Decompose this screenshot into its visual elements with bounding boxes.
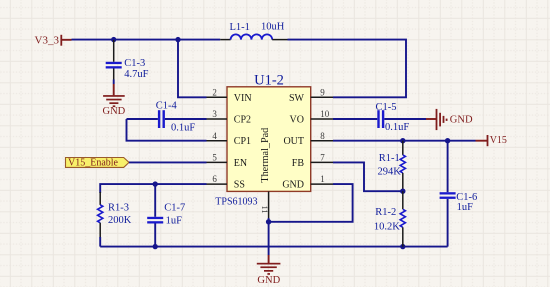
svg-text:4: 4 bbox=[212, 131, 217, 141]
svg-text:C1-5: C1-5 bbox=[376, 102, 397, 113]
svg-text:1: 1 bbox=[320, 174, 325, 184]
svg-text:OUT: OUT bbox=[283, 136, 304, 147]
capacitor C1-3 bbox=[106, 40, 122, 84]
svg-text:SW: SW bbox=[289, 93, 305, 104]
svg-text:GND: GND bbox=[103, 106, 126, 117]
wire VO net bbox=[333, 118, 377, 120]
svg-text:8: 8 bbox=[320, 131, 325, 141]
svg-text:200K: 200K bbox=[108, 215, 132, 226]
svg-text:9: 9 bbox=[320, 87, 325, 97]
wire SS net left bbox=[100, 184, 206, 193]
pin 6 SS bbox=[207, 183, 228, 185]
pin 11 thermal pad lead bbox=[268, 191, 270, 218]
svg-text:7: 7 bbox=[320, 153, 325, 163]
capacitor C1-4 bbox=[127, 110, 207, 128]
ground GND under C1-3 bbox=[103, 84, 126, 117]
power port V3_3 bbox=[35, 34, 72, 46]
pin 3 CP2 bbox=[207, 118, 228, 120]
pin 7 FB bbox=[311, 161, 333, 163]
svg-text:C1-4: C1-4 bbox=[156, 101, 178, 112]
pin 10 VO bbox=[311, 118, 333, 120]
svg-text:GND: GND bbox=[282, 180, 304, 191]
capacitor C1-7 bbox=[147, 184, 163, 247]
power port V15 bbox=[476, 135, 507, 146]
svg-text:CP2: CP2 bbox=[234, 115, 251, 126]
junction SS to C1-7 bbox=[153, 181, 158, 186]
resistor R1-3 bbox=[98, 192, 103, 247]
resistor R1-2 bbox=[400, 191, 405, 246]
svg-text:L1-1: L1-1 bbox=[230, 22, 250, 33]
svg-text:3: 3 bbox=[212, 109, 217, 119]
junction R1-2 bottom bbox=[400, 244, 405, 249]
pin 5 EN bbox=[207, 161, 228, 163]
resistor R1-1 bbox=[400, 141, 405, 192]
svg-text:Thermal_Pad: Thermal_Pad bbox=[260, 128, 271, 183]
svg-text:TPS61093: TPS61093 bbox=[215, 197, 257, 208]
svg-text:GND: GND bbox=[450, 115, 473, 126]
wire thermal pad to ground bbox=[268, 218, 270, 255]
junction thermal pad node bbox=[266, 219, 271, 224]
wire VIN riser bbox=[178, 40, 207, 98]
svg-text:294K: 294K bbox=[377, 166, 401, 177]
svg-text:GND: GND bbox=[257, 275, 280, 286]
svg-text:2: 2 bbox=[212, 87, 217, 97]
svg-text:R1-2: R1-2 bbox=[375, 207, 396, 218]
svg-text:FB: FB bbox=[292, 158, 305, 169]
junction C1-7 bottom bbox=[153, 244, 158, 249]
svg-text:R1-3: R1-3 bbox=[108, 203, 129, 214]
ground GND bottom center bbox=[257, 255, 281, 286]
svg-text:10uH: 10uH bbox=[261, 22, 285, 33]
svg-text:CP1: CP1 bbox=[234, 136, 251, 147]
pin 9 SW bbox=[311, 96, 333, 98]
pin 8 OUT bbox=[311, 140, 333, 142]
svg-text:VIN: VIN bbox=[234, 93, 252, 104]
wire GND pin1 loop bbox=[269, 184, 353, 222]
svg-text:5: 5 bbox=[212, 153, 217, 163]
op-amp/IC U1-2 body bbox=[227, 87, 311, 192]
svg-text:6: 6 bbox=[212, 174, 217, 184]
capacitor C1-6 bbox=[440, 141, 456, 247]
wire CP1 loop bbox=[127, 119, 207, 141]
wire bottom rail bbox=[100, 246, 447, 248]
wire FB net bbox=[333, 162, 403, 191]
junction OUT to R1-1 bbox=[400, 138, 405, 143]
svg-text:4.7uF: 4.7uF bbox=[124, 69, 148, 80]
junction OUT to C1-6 bbox=[445, 138, 450, 143]
port V15_Enable bbox=[66, 157, 130, 168]
wire OUT net bbox=[333, 140, 476, 142]
svg-text:V3_3: V3_3 bbox=[35, 34, 60, 46]
pin 4 CP1 bbox=[207, 140, 228, 142]
junction FB divider node bbox=[400, 189, 405, 194]
svg-text:10: 10 bbox=[320, 109, 330, 119]
power port GND right (bar style) bbox=[426, 109, 473, 130]
capacitor C1-5 bbox=[377, 110, 426, 128]
wire EN net bbox=[129, 161, 207, 163]
svg-text:R1-1: R1-1 bbox=[379, 153, 400, 164]
junction at C1-3 tap bbox=[111, 37, 116, 42]
svg-text:10.2K: 10.2K bbox=[374, 221, 400, 232]
svg-text:1uF: 1uF bbox=[166, 216, 183, 227]
svg-text:V15_Enable: V15_Enable bbox=[68, 157, 119, 168]
wire top rail V3_3 to inductor bbox=[72, 39, 221, 41]
svg-text:V15: V15 bbox=[490, 135, 507, 146]
svg-text:0.1uF: 0.1uF bbox=[385, 122, 409, 133]
svg-text:1uF: 1uF bbox=[457, 202, 474, 213]
inductor L1-1 bbox=[220, 34, 287, 39]
svg-text:U1-2: U1-2 bbox=[254, 72, 284, 88]
junction at VIN tap bbox=[175, 37, 180, 42]
pin 2 VIN bbox=[207, 96, 228, 98]
svg-text:VO: VO bbox=[290, 115, 304, 126]
svg-text:0.1uF: 0.1uF bbox=[171, 123, 195, 134]
svg-text:EN: EN bbox=[234, 158, 247, 169]
svg-text:SS: SS bbox=[234, 180, 245, 191]
svg-text:C1-3: C1-3 bbox=[124, 58, 145, 69]
svg-text:11: 11 bbox=[260, 206, 270, 214]
svg-text:C1-7: C1-7 bbox=[164, 203, 185, 214]
wire inductor to SW riser bbox=[288, 40, 407, 98]
pin 1 GND bbox=[311, 183, 333, 185]
